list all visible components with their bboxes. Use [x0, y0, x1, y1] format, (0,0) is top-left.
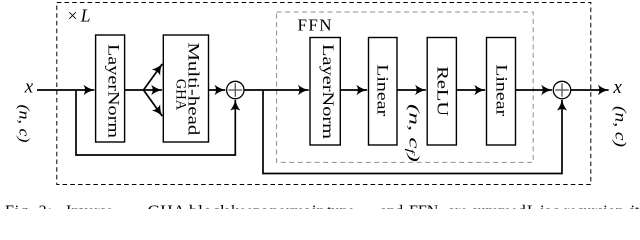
- svg-text:tune: tune: [327, 203, 355, 209]
- svg-text:Inverse: Inverse: [66, 203, 113, 209]
- svg-text:in: in: [312, 203, 324, 209]
- svg-text:(n, c): (n, c): [16, 105, 32, 143]
- svg-text:ReLU: ReLU: [433, 66, 450, 117]
- svg-text:are summed.: are summed.: [448, 203, 530, 209]
- svg-text:keeps: keeps: [231, 203, 267, 209]
- svg-text:norms: norms: [270, 203, 310, 209]
- svg-text:and: and: [380, 203, 403, 209]
- svg-text:(n, c): (n, c): [612, 106, 629, 147]
- svg-text:LayerNorm: LayerNorm: [319, 44, 336, 140]
- svg-text:x: x: [24, 77, 34, 98]
- svg-text:GHA: GHA: [148, 203, 186, 209]
- svg-text:L is: L is: [527, 203, 551, 209]
- svg-text:Fig. 3:: Fig. 3:: [5, 203, 52, 209]
- svg-text:block: block: [189, 203, 229, 209]
- svg-text:it: it: [631, 203, 640, 209]
- svg-text:FFN: FFN: [298, 15, 332, 34]
- svg-text:Linear: Linear: [374, 64, 391, 117]
- svg-text:a recursion over: a recursion over: [553, 203, 640, 209]
- svg-text:Linear: Linear: [492, 64, 509, 117]
- svg-text:FFN: FFN: [409, 203, 439, 209]
- svg-text:x: x: [612, 77, 622, 98]
- svg-text:LayerNorm: LayerNorm: [105, 44, 122, 139]
- svg-text:Multi-head: Multi-head: [184, 42, 201, 135]
- svg-text:(n, cf): (n, cf): [405, 104, 422, 162]
- svg-text:×L: ×L: [67, 6, 94, 26]
